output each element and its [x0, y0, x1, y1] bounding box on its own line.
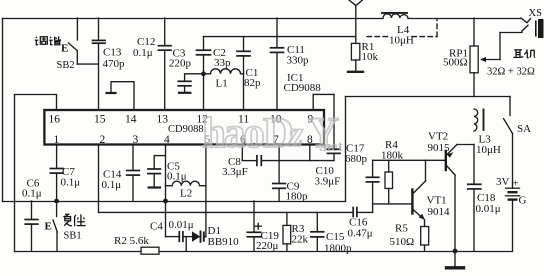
svg-text:L2: L2 [180, 188, 192, 200]
wire line B (audio line from pin 2) [99, 211, 354, 213]
capacitor C5 + stub [154, 155, 165, 157]
svg-text:330p: 330p [287, 55, 310, 67]
wire pin16 loop [14, 95, 16, 252]
capacitor C3 220p / pin 13 [164, 18, 166, 46]
potentiometer RP1 500 ohm [473, 18, 475, 46]
svg-text:180p: 180p [286, 191, 309, 203]
svg-text:C13: C13 [103, 47, 122, 59]
svg-text:1800p: 1800p [324, 243, 352, 255]
wire dashed L4 bypass [367, 36, 389, 38]
svg-text:180k: 180k [381, 150, 404, 162]
调谐 tuning label [35, 36, 61, 45]
resistor R1 10k [351, 43, 359, 60]
svg-text:VT1: VT1 [427, 195, 447, 207]
svg-text:0.1μ: 0.1μ [61, 177, 81, 189]
pin8 + C8 line [309, 145, 311, 161]
svg-text:0.1μ: 0.1μ [22, 188, 42, 200]
transistor VT1 9014 [373, 203, 413, 205]
svg-text:3.9μF: 3.9μF [315, 176, 341, 188]
svg-text:0.01μ: 0.01μ [476, 203, 501, 215]
svg-text:0.47μ: 0.47μ [348, 228, 373, 240]
capacitor C17 680p [372, 160, 374, 177]
inductor L2 [166, 181, 206, 186]
svg-text:CD9088: CD9088 [168, 124, 204, 135]
pin 1 / capacitor C7 [56, 145, 58, 169]
wire bottom ground bus [15, 251, 142, 253]
capacitor C12 body to stub [185, 73, 204, 75]
pin 9 route + capacitor C10 3.9uF [312, 94, 314, 110]
svg-text:z: z [287, 114, 303, 154]
svg-text:0.1μ: 0.1μ [102, 179, 122, 191]
svg-text:BB910: BB910 [208, 236, 240, 248]
watermark [202, 110, 343, 157]
capacitor C4 0.01u [178, 232, 180, 241]
node bus A (supply bus) [3, 201, 346, 203]
diode D1 BB910 varactor [192, 231, 200, 241]
resistor R4 180k [388, 160, 390, 172]
switch SA [509, 97, 511, 116]
svg-text:XS: XS [529, 8, 543, 19]
svg-text:SB2: SB2 [57, 60, 75, 71]
svg-text:680p: 680p [345, 153, 368, 165]
svg-text:E: E [61, 43, 68, 55]
IC U1 CD9088 box [44, 110, 324, 145]
svg-text:82p: 82p [244, 77, 261, 89]
svg-text:R2 5.6k: R2 5.6k [114, 235, 149, 247]
capacitor C9 180p / pin 7 [278, 145, 280, 184]
svg-text:G: G [519, 195, 527, 207]
svg-text:470p: 470p [103, 58, 126, 70]
svg-text:10k: 10k [362, 51, 379, 63]
pin 5 wire [205, 145, 207, 237]
svg-text:220p: 220p [169, 58, 192, 70]
capacitor C19 220u [253, 201, 255, 232]
svg-text:.net: .net [319, 139, 343, 155]
wire line D (switched supply) [346, 96, 511, 98]
svg-text:33p: 33p [214, 57, 231, 69]
svg-text:22k: 22k [292, 234, 309, 246]
capacitor C18 0.01u [473, 145, 475, 185]
pin 2 wire [98, 145, 100, 213]
capacitor C6 [31, 201, 33, 219]
pin 3 / capacitor C14 [132, 145, 134, 171]
svg-text:R5: R5 [395, 223, 408, 235]
svg-text:500Ω: 500Ω [443, 57, 468, 69]
svg-text:9015: 9015 [428, 142, 451, 154]
耳机 earphone label [513, 50, 535, 58]
svg-text:16: 16 [49, 114, 61, 126]
node L1/C2 junction [201, 71, 206, 76]
capacitor C11 330p / pin 10 [276, 18, 278, 48]
svg-text:E: E [45, 221, 52, 233]
svg-text:32Ω + 32Ω: 32Ω + 32Ω [487, 67, 535, 78]
switch SB2 (tuning) [76, 18, 78, 40]
CJK labels drawn as stroke glyphs [35, 36, 535, 226]
svg-text:15: 15 [94, 114, 106, 126]
复位 reset label [63, 214, 85, 226]
pin 4 wire + varactor chain [165, 145, 167, 202]
wiper arrow into RP1 [483, 59, 500, 61]
node junction dot collector bus [453, 249, 458, 254]
svg-text:C4: C4 [150, 221, 163, 233]
wire top rail [3, 18, 384, 20]
capacitor C15 1800p [316, 212, 318, 231]
inductor L1 [204, 69, 244, 74]
wire left border [2, 19, 4, 202]
svg-text:SA: SA [517, 123, 531, 135]
svg-text:0.1μ: 0.1μ [133, 47, 153, 59]
inductor L3 10uH [474, 109, 478, 131]
svg-text:3V: 3V [496, 176, 510, 188]
svg-text:haoD: haoD [202, 110, 292, 157]
svg-text:2: 2 [100, 134, 106, 146]
svg-text:14: 14 [125, 114, 137, 126]
earphone speaker [535, 21, 537, 37]
svg-text:9014: 9014 [428, 206, 451, 218]
capacitor C1 82p / pin 11 [243, 37, 245, 51]
svg-text:0.01μ: 0.01μ [169, 219, 194, 231]
svg-text:SB1: SB1 [64, 231, 82, 242]
transistor VT2 9015 [457, 144, 474, 146]
resistor R5 510 [421, 227, 429, 246]
svg-text:10μH: 10μH [476, 144, 501, 156]
pin14 stub [111, 82, 134, 110]
resistor R2 5.6k [141, 247, 159, 254]
svg-text:3.3μF: 3.3μF [222, 166, 248, 178]
jack XS contacts [521, 18, 531, 23]
switch SB1 (reset) [56, 201, 58, 217]
svg-text:CD9088: CD9088 [284, 82, 322, 94]
svg-text:220μ: 220μ [256, 240, 279, 252]
wire node line C (varactor supply line) [204, 36, 356, 38]
battery 3V G [506, 187, 520, 189]
svg-text:C15: C15 [326, 231, 345, 243]
svg-text:10μH: 10μH [389, 35, 414, 47]
capacitor C16 0.47u [352, 208, 354, 217]
resistor R3 22k [286, 212, 288, 225]
capacitor C13 470p / pin 15 [98, 18, 100, 40]
svg-text:VT2: VT2 [428, 131, 448, 143]
ground [454, 251, 456, 267]
svg-text:L1: L1 [216, 78, 228, 90]
antenna [349, 0, 356, 6]
svg-text:13: 13 [157, 114, 169, 126]
inductor L4 10uH [383, 14, 408, 18]
wire branch to R2 [185, 237, 187, 251]
svg-text:+: + [513, 178, 519, 190]
capacitor C2 33p / pin 12 [203, 37, 205, 50]
svg-text:510Ω: 510Ω [390, 236, 415, 248]
